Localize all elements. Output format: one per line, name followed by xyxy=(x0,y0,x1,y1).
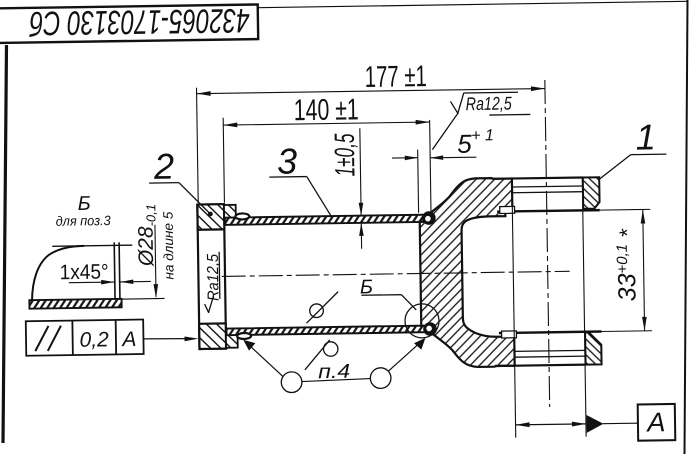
dimension 177±1 xyxy=(197,83,547,204)
detail view Б end face chamfer lines xyxy=(113,242,116,303)
flange bore Ra12,5 label xyxy=(204,252,220,313)
svg-text:3: 3 xyxy=(277,141,298,182)
dimension 33+0,1 xyxy=(640,209,646,330)
yoke item 1 hatched section xyxy=(419,178,515,368)
view A dimension line with arrows xyxy=(516,424,586,425)
dimension 1±0,5 wall thickness xyxy=(358,128,364,249)
vertical centerline of ears xyxy=(545,80,550,407)
svg-text:0,2: 0,2 xyxy=(79,328,109,351)
flange top hatched section xyxy=(197,204,224,230)
view A label box xyxy=(638,404,676,441)
svg-text:177 ±1: 177 ±1 xyxy=(365,60,427,94)
tube end weld bead bottom xyxy=(423,322,437,336)
tube end weld bead top xyxy=(422,211,436,225)
bottom ear right retaining block xyxy=(585,332,601,365)
svg-text:для поз.3: для поз.3 xyxy=(56,213,112,229)
svg-text:1: 1 xyxy=(635,116,656,157)
svg-text:Б: Б xyxy=(77,193,90,215)
parallelism tolerance frame xyxy=(26,320,144,356)
svg-text:п.4: п.4 xyxy=(318,361,350,383)
svg-text:на длине 5: на длине 5 xyxy=(161,211,177,280)
dimension 140±1 xyxy=(223,115,431,203)
weld bead at flange top xyxy=(235,213,249,219)
detail view Б outline xyxy=(31,246,85,300)
svg-text:2: 2 xyxy=(153,146,175,187)
frame left border xyxy=(3,45,7,443)
weld bead at flange bottom xyxy=(237,333,251,339)
view A direction arrow xyxy=(586,415,603,433)
svg-text:1±0,5: 1±0,5 xyxy=(329,133,361,177)
top ear cup bump xyxy=(500,206,515,213)
svg-text:140 ±1: 140 ±1 xyxy=(294,93,359,127)
detail view Б wall section xyxy=(29,299,121,309)
svg-text:А: А xyxy=(645,407,665,437)
flange item 2 body xyxy=(197,204,226,349)
frame right border xyxy=(685,0,688,454)
weld symbol lower slash and circle xyxy=(304,340,330,370)
surface finish Ra12,5 over tube end xyxy=(432,92,531,150)
svg-text:Ra12,5: Ra12,5 xyxy=(205,254,223,301)
weld symbol upper slash and circle xyxy=(306,292,339,324)
svg-text:Ra12,5: Ra12,5 xyxy=(466,93,513,115)
view A extension lines xyxy=(512,179,516,438)
detail Б diameter dimension Ø28 xyxy=(113,225,165,300)
top ear (bearing boss) lines xyxy=(493,176,650,211)
title block stamp 432065-1703130 xyxy=(0,1,258,43)
top ear right retaining block xyxy=(583,177,600,209)
tube item 3 bottom wall xyxy=(226,326,432,336)
weld note п.4 circles and leaders xyxy=(281,372,302,393)
flange bottom hatched section xyxy=(199,323,226,349)
detail Б callout circle xyxy=(405,304,440,339)
svg-text:432065-1703130 Сб: 432065-1703130 Сб xyxy=(28,1,250,42)
horizontal centerline xyxy=(222,271,570,276)
parallelism symbol xyxy=(35,326,61,351)
frame top line xyxy=(258,1,688,7)
svg-text:+ 1: + 1 xyxy=(471,127,494,144)
bottom ear lines xyxy=(495,331,652,366)
tolerance leader arrow to flange xyxy=(143,338,187,339)
tube item 3 top wall xyxy=(225,215,431,225)
flange boss top xyxy=(224,205,236,218)
dimension 5+1 xyxy=(391,119,477,213)
bottom ear cup bump xyxy=(502,331,517,338)
svg-text:А: А xyxy=(120,328,136,351)
flange boss bottom xyxy=(226,335,238,348)
